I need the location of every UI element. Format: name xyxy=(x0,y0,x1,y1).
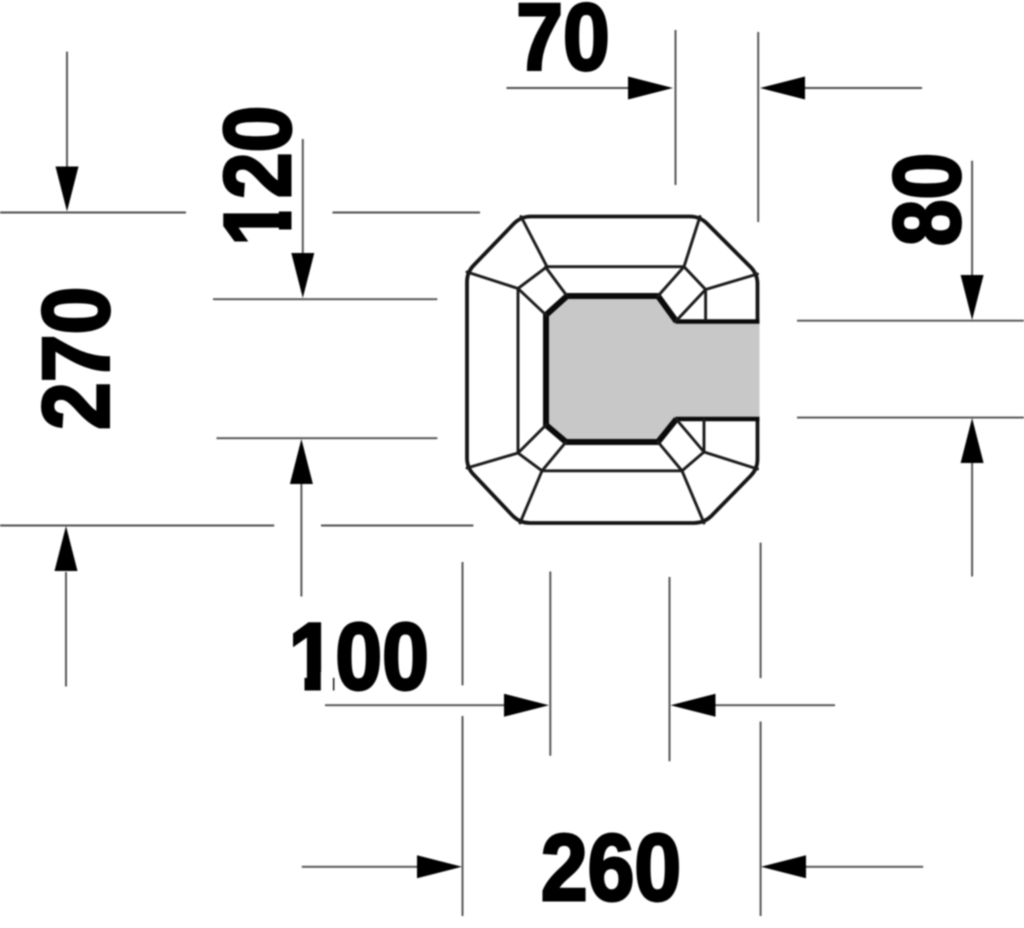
svg-text:120: 120 xyxy=(205,106,311,246)
svg-text:70: 70 xyxy=(516,0,610,91)
svg-text:100: 100 xyxy=(289,604,429,710)
svg-text:270: 270 xyxy=(24,287,130,430)
svg-text:80: 80 xyxy=(875,153,981,247)
svg-text:260: 260 xyxy=(541,815,681,921)
